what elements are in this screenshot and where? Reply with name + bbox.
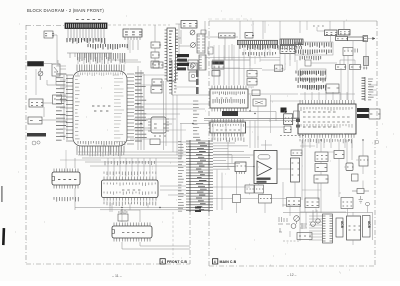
box DC/DC 3 <box>314 175 328 183</box>
box BATT <box>343 48 353 56</box>
sub box above IC707 <box>326 84 339 93</box>
volume box IC710 <box>291 158 300 182</box>
IC705 top pins <box>212 119 243 122</box>
IC501 bottom pins <box>77 146 124 153</box>
bottom cluster top wire <box>283 212 372 214</box>
box upper small bottom cluster <box>287 198 301 207</box>
IC501 right pin labels <box>135 73 147 141</box>
slim connector at page edge upper <box>197 34 205 53</box>
IC504 bottom pins <box>114 238 150 242</box>
vertical drops right of strip <box>217 140 232 210</box>
small box below X501 <box>150 139 160 145</box>
IC703 internal label <box>213 92 245 96</box>
connector CN702 vertical right <box>364 77 366 101</box>
interpage wires upper <box>134 104 209 109</box>
head block HA601 <box>181 21 197 29</box>
wires IC503 down <box>110 203 148 212</box>
connector strip CN706 <box>323 214 333 243</box>
crystal X702 <box>357 189 364 194</box>
bus wires under IC501 <box>78 152 190 158</box>
wire y66 left of IC <box>56 60 66 66</box>
labels row y135 right page <box>280 135 304 137</box>
wire amp top stub <box>261 140 272 151</box>
IC503 top pin labels <box>104 172 156 176</box>
wire y57 right page <box>205 57 280 59</box>
IC501 right pins <box>127 74 134 144</box>
box IC704a <box>252 90 260 96</box>
box PWR A <box>305 198 319 208</box>
IC601 bottom pins <box>125 37 140 40</box>
wire joining switches <box>154 25 156 61</box>
pre box IC709 <box>235 162 246 172</box>
interpage ladder rungs <box>186 141 213 211</box>
labels right column above ladder <box>193 101 200 137</box>
speaker R box <box>339 30 351 36</box>
box OSC <box>334 151 344 159</box>
small box left edge <box>208 47 213 54</box>
black row block B <box>357 114 369 118</box>
wires IC705 region <box>246 119 286 149</box>
box above IC710 <box>291 150 302 156</box>
capacitor C510 <box>118 214 128 221</box>
mark G3 <box>32 141 36 145</box>
box mid bottom <box>297 233 312 240</box>
IC707 bottom label row <box>300 139 351 143</box>
svg-text:– 12 –: – 12 – <box>287 273 297 277</box>
wire IC502 to bus <box>74 158 76 210</box>
switch S603 box <box>151 61 159 68</box>
LCD box lower <box>212 71 220 77</box>
crossing wire y94 right page <box>248 87 298 94</box>
wires above IC707 <box>305 92 347 100</box>
scan artifact bar <box>2 228 5 245</box>
crossing wires upper interpage <box>134 75 196 130</box>
driver box Q601 <box>53 95 62 104</box>
box IC706 tall <box>284 114 293 125</box>
vertical drops from top frame right page <box>240 21 300 39</box>
component cluster bottom left <box>278 217 290 232</box>
IC502 bottom pins <box>54 185 78 189</box>
IC703 body <box>210 89 248 108</box>
black bar label bottom left column <box>27 133 46 137</box>
wire bundle from CN601 down <box>68 29 104 45</box>
wires right page y60 horizontals <box>212 60 250 68</box>
corner mark right frame <box>375 140 379 144</box>
box DC/DC 1 <box>315 152 328 162</box>
wire right bottom vertical <box>372 212 374 240</box>
svg-text:ACB: ACB <box>367 221 371 229</box>
IC501 top pin labels <box>78 53 125 64</box>
CN601 label <box>76 19 101 21</box>
IC705 bottom pins <box>212 133 243 137</box>
labels under IC502 <box>54 197 78 202</box>
box Q701 <box>275 65 283 72</box>
motor M601 box <box>29 99 43 107</box>
IC501 internal label <box>92 105 110 107</box>
wires IC503 up to bus <box>108 158 156 177</box>
box IC701 <box>247 71 257 78</box>
black marks ladder bottom <box>195 207 201 209</box>
black label rows CN602 area <box>177 54 189 57</box>
photo sensor D602 <box>191 43 196 48</box>
small circle mark bottom right <box>365 203 369 206</box>
svg-text:ACB: ACB <box>340 221 344 229</box>
IC502 top pins <box>54 169 78 173</box>
C510 label <box>118 211 128 213</box>
gray marks interpage upper <box>196 70 199 77</box>
resistor row R702 group <box>243 52 275 56</box>
wire remote box down <box>56 76 66 85</box>
interpage connector strip left <box>189 140 191 212</box>
IC503 bottom pins <box>104 198 156 201</box>
wire stubs left bus to IC501 <box>60 80 66 136</box>
interpage strip line right <box>208 140 210 212</box>
slim connector at page edge lower <box>199 55 206 70</box>
box IC711 <box>359 156 368 166</box>
wire from remote box <box>52 35 57 63</box>
resistor rows right page top <box>296 43 331 48</box>
left page vertical bus x163 <box>164 81 167 150</box>
power switch S604 <box>52 64 60 76</box>
wires IC504 <box>122 210 190 249</box>
wire net across page y123 <box>180 123 209 125</box>
wide box top left of right page <box>219 33 236 38</box>
resistor rows right page mid <box>296 71 325 76</box>
IC501 left pins <box>66 75 73 141</box>
connector CN704 <box>363 36 368 42</box>
verticals into IC707 top <box>341 55 353 100</box>
label row under IC501 pins <box>77 153 124 157</box>
IC707 internal rows <box>303 111 336 113</box>
wires CN701 upper drops <box>214 45 244 56</box>
wires to head blocks <box>176 24 191 62</box>
left vertical bus wires <box>64 75 67 140</box>
wires into amp <box>213 155 291 169</box>
tiny box at page edge <box>201 30 206 34</box>
IC501 top pins <box>77 65 124 72</box>
black mark on bus <box>281 108 287 113</box>
switch S601 box <box>151 42 160 48</box>
power amp IC708 frame <box>254 151 277 184</box>
bus across right page y118 <box>204 118 300 120</box>
transistor Q605 <box>38 71 43 76</box>
svg-text:MAIN C.B: MAIN C.B <box>220 260 237 264</box>
mixer box below speakers <box>336 37 348 41</box>
svg-text:BLOCK DIAGRAM - 2 (MAIN FRON: BLOCK DIAGRAM - 2 (MAIN FRONT) <box>27 8 104 13</box>
resistor hatch under CN701 <box>248 45 281 50</box>
dash line near front label <box>172 212 174 258</box>
IC501 left pin labels <box>56 74 67 140</box>
box DC/DC 2 <box>315 164 327 172</box>
box IC702 <box>247 79 257 86</box>
IC502 label <box>58 179 76 181</box>
wires to right frame <box>369 85 377 95</box>
transistor pair Q603 <box>189 72 198 81</box>
box C704 <box>294 111 300 118</box>
CN702 labels <box>368 79 374 100</box>
wires CN601 area to IC top <box>78 57 108 64</box>
wire bus below resistor cluster <box>67 52 112 54</box>
IC504 internal label <box>122 232 144 234</box>
left page extra verticals <box>120 40 130 64</box>
wire from keyboard <box>44 64 67 70</box>
right page extra verticals <box>265 21 307 70</box>
dashed enclosure top <box>283 205 300 241</box>
wires right of interpage strip <box>213 143 250 169</box>
right page frame <box>208 21 210 266</box>
connector CN603 vertical strip <box>171 60 173 95</box>
box SW701 <box>336 65 346 70</box>
wire net y139 <box>130 139 190 142</box>
vertical label box ACB2 <box>363 216 371 238</box>
dark box under IC703 <box>222 111 238 116</box>
wire net across page y95 <box>172 94 209 96</box>
wire motor to sensor <box>43 107 45 117</box>
filter box C503 <box>151 86 162 93</box>
IC707 internal rows dense <box>301 107 352 111</box>
interpage rung labels <box>196 140 207 210</box>
switch S602 box <box>151 52 159 58</box>
wide box below amp <box>259 195 272 204</box>
box PWR B <box>341 198 353 209</box>
EEPROM IC502 <box>52 172 80 185</box>
wire IC710 down <box>283 182 295 207</box>
resistor array rows top right <box>301 71 325 76</box>
IC703 bottom pins <box>212 108 246 112</box>
faint page edge dash top <box>208 18 252 20</box>
marks right of BATT <box>355 49 358 53</box>
box SW702 <box>350 65 361 70</box>
box REG2 <box>346 163 353 171</box>
wires above EEPROM <box>60 150 101 172</box>
remote sensor box <box>44 31 53 38</box>
speaker caption <box>313 25 324 27</box>
black bits right of IC706 <box>296 119 300 122</box>
IC705 bottom labels <box>212 138 244 143</box>
op-amp triangle <box>257 161 272 176</box>
transistor Q702 <box>294 216 300 222</box>
IC705 body <box>210 122 246 133</box>
wires bottom cluster <box>290 205 346 237</box>
resistor hatch cluster right of bus <box>108 44 127 50</box>
wires top mid right page <box>212 45 280 71</box>
IC703 top pins <box>212 86 246 90</box>
wires PW701 down <box>262 53 295 70</box>
wires left column to IC <box>42 80 66 120</box>
CD mechanism box <box>347 216 361 240</box>
vertical label box ACB1 <box>336 218 343 237</box>
box below amp A <box>245 185 254 193</box>
right page extra horizontals <box>300 146 359 193</box>
wires CN701 to IC703 <box>214 56 244 85</box>
IC707 wide body <box>298 104 356 134</box>
IC705 internal marks <box>213 124 244 127</box>
transistor pair Q602 <box>188 63 197 70</box>
wire y198 bottom mid <box>209 198 287 200</box>
IC501 inner pin numbers left <box>75 76 80 139</box>
connector CN701b strip <box>280 39 303 45</box>
wires below amp <box>250 184 266 214</box>
connector CN601 top strip <box>65 23 107 29</box>
svg-text:4: 4 <box>161 260 163 264</box>
wire y111 right of dark box <box>238 112 276 122</box>
photo sensor D601 <box>190 30 195 35</box>
wire y101 to right <box>270 100 302 102</box>
driver IC503 body <box>102 180 159 198</box>
box CN703 <box>369 109 380 119</box>
wire PWRB down <box>316 209 348 217</box>
svg-text:4: 4 <box>214 260 216 264</box>
IC503 caption row <box>104 202 156 207</box>
wire pre down <box>236 172 238 214</box>
hatch rows wide under CN701 <box>280 46 302 50</box>
IC503 internal label <box>104 183 155 187</box>
box below amp B <box>255 185 264 193</box>
IC707 bottom pins <box>300 134 354 138</box>
IC501 inner pin numbers top <box>78 73 123 77</box>
wire CN704 to frame arrow <box>368 38 376 40</box>
left page frame <box>25 25 27 264</box>
IC708 oval label <box>258 155 270 159</box>
svg-text:FRONT C.B: FRONT C.B <box>167 260 187 264</box>
transistor Q703 <box>291 224 296 229</box>
front cb label marker box <box>160 259 165 264</box>
small box mid right <box>305 60 311 66</box>
IC504 top pins <box>114 223 150 227</box>
long bus wires left page bottom <box>75 208 209 210</box>
LCD box upper <box>212 61 224 69</box>
IC707 top pins <box>300 100 354 104</box>
wire horizontal y187 <box>209 186 250 188</box>
wire IC top to right <box>112 60 141 62</box>
svg-text:– 11 –: – 11 – <box>112 274 122 278</box>
IC503 top pins <box>104 177 156 181</box>
extra CN701 drops <box>250 45 270 66</box>
bypass box C501 <box>153 62 163 68</box>
head block HA603 <box>188 60 198 70</box>
wire IC to X501 <box>134 120 172 128</box>
interpage strip labels left <box>178 142 184 212</box>
vertical wires IC704 area <box>251 95 271 140</box>
interpage wires mid <box>134 114 180 119</box>
wires bus to amp verticals <box>213 121 255 149</box>
connector CN602 vertical strip <box>167 28 176 81</box>
black row block A <box>357 108 369 112</box>
wires right column <box>302 140 363 221</box>
wire y68 right page <box>224 69 262 79</box>
wires under CN701 <box>212 37 238 60</box>
ground sym <box>359 196 364 203</box>
box left of below-amp boxes <box>233 195 241 203</box>
vertical wires right of IC501 <box>173 95 181 158</box>
main cb label marker box <box>213 259 218 264</box>
connector CN701 strip <box>238 40 278 44</box>
cap marks below CN705 <box>363 67 368 70</box>
box IC704b <box>253 99 266 106</box>
wires IC707 bottom drops <box>303 138 352 148</box>
IC503 upper caption row <box>105 161 155 165</box>
box small 712 <box>352 174 359 181</box>
block PW701 dense <box>280 46 295 54</box>
regulator IC601 box <box>123 29 142 37</box>
bar to connector <box>348 37 364 41</box>
junction dots ladder <box>189 146 190 147</box>
transistor Q705 <box>316 219 320 223</box>
resistor row frame top <box>295 42 333 55</box>
extra junction dots <box>137 103 138 104</box>
IC501 bottom pin labels <box>78 141 125 145</box>
crystal X501 <box>151 117 166 133</box>
resistor cluster R601 group <box>67 38 105 44</box>
right bus wires of IC501 <box>138 66 144 150</box>
box IC706 lower <box>284 126 291 133</box>
indicator box D701 <box>245 33 253 39</box>
extra bus lines under IC501 <box>85 162 186 166</box>
bottom caption under IC501 <box>0 0 1 1</box>
wire keyboard down <box>36 69 40 95</box>
keyboard block KB601 <box>28 62 44 67</box>
speaker L box <box>325 30 338 36</box>
X501 caption <box>154 135 166 137</box>
filter box C502 <box>152 79 162 85</box>
wires below IC601 <box>128 40 138 50</box>
box R group frame <box>300 69 326 79</box>
resistor marks near Q703 <box>300 223 307 229</box>
resistor row R701 group <box>240 45 278 50</box>
IC501 inner pin numbers right <box>114 75 124 142</box>
main IC IC501 body <box>73 71 127 146</box>
sensor box S605 <box>28 117 42 124</box>
wire stub top left of right page <box>205 21 212 70</box>
wire stubs into CN706 <box>309 216 323 240</box>
IC708 caption <box>257 178 271 180</box>
wires speaker area <box>330 21 366 65</box>
wires into interpage strip <box>160 186 186 195</box>
display IC504 body <box>112 226 152 238</box>
connector CN705 <box>364 57 369 66</box>
transistor Q704 <box>311 222 316 227</box>
